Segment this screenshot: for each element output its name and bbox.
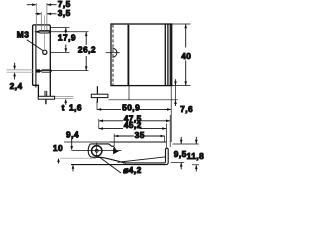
- inner fold line: [118, 157, 166, 162]
- hole centerline horizontal (to pin): [72, 150, 122, 152]
- tab top edge: [90, 144, 115, 150]
- tab left rounded end: [88, 144, 101, 157]
- foot pad: [38, 96, 54, 99]
- step notch lower-left: [33, 85, 39, 96]
- pin2 lens: [39, 70, 51, 72]
- bar bottom inner line + hairpin inner: [71, 148, 168, 164]
- dim 50,9: [96, 101, 98, 110]
- svg-text:9,5: 9,5: [174, 149, 187, 159]
- ext 7.5 left: [35, 3, 37, 31]
- up arrow at lip line: [72, 165, 75, 172]
- svg-text:45,2: 45,2: [124, 120, 142, 130]
- hole crosshair vertical: [96, 143, 98, 158]
- heatsink bracket technical drawing: [0, 0, 206, 185]
- hole center dot: [95, 149, 98, 152]
- M3 hole circle: [43, 50, 47, 54]
- dim 35: [113, 134, 115, 146]
- dim 47,5: [98, 119, 100, 129]
- tab bottom swoosh: [101, 157, 126, 163]
- ext pin2 centerline right: [42, 70, 89, 72]
- ext pin2 edges left (gray): [7, 69, 34, 71]
- body outline: [111, 24, 172, 86]
- ext top right: [173, 143, 199, 145]
- solder pin below pad: [45, 99, 47, 104]
- ext circle center vertical: [44, 16, 46, 51]
- pin seen from below (filled): [113, 148, 119, 154]
- dim phi 4,2 leader: [98, 156, 121, 173]
- svg-text:9,4: 9,4: [66, 129, 79, 139]
- svg-text:26,2: 26,2: [78, 45, 96, 55]
- svg-text:2,4: 2,4: [10, 81, 23, 91]
- pin1 cross-section lens: [36, 30, 49, 33]
- svg-text:17,9: 17,9: [58, 32, 76, 42]
- hidden inner line (dashed): [112, 25, 114, 86]
- svg-text:3,5: 3,5: [58, 8, 71, 18]
- mounting hole: [92, 146, 102, 156]
- svg-text:M3: M3: [17, 30, 30, 40]
- svg-text:10: 10: [53, 143, 63, 153]
- bar top edge + left ext: [64, 141, 110, 143]
- ext circle center right: [50, 52, 69, 54]
- svg-text:1,6: 1,6: [69, 103, 82, 113]
- svg-text:11,8: 11,8: [187, 151, 205, 161]
- inner left line: [35, 25, 37, 88]
- ext tab bottom left (gray): [60, 157, 96, 159]
- M3 leader line: [27, 40, 43, 51]
- svg-text:40: 40: [181, 51, 191, 61]
- svg-text:⌀4,2: ⌀4,2: [123, 165, 142, 175]
- dim 40: [172, 23, 191, 25]
- foot pin upper: [96, 86, 98, 94]
- svg-text:50,9: 50,9: [122, 102, 140, 112]
- dim 3,5: [35, 13, 56, 16]
- dim 45,2: [166, 124, 168, 148]
- solder pin above pad: [44, 91, 46, 97]
- dim 9,4: [70, 139, 73, 150]
- ext from thick line down: [128, 86, 130, 100]
- svg-text:t: t: [62, 103, 65, 113]
- fins right: [164, 24, 166, 85]
- side plate outline: [33, 25, 51, 96]
- svg-text:35: 35: [135, 130, 145, 140]
- svg-text:7,6: 7,6: [180, 104, 193, 114]
- M3 boss bump on left edge: [112, 48, 117, 57]
- ext pin1 centerline right: [35, 31, 89, 33]
- ext 11,8 bottom: [192, 164, 199, 166]
- ext from front right edge down: [170, 86, 172, 142]
- foot pin lower: [96, 98, 98, 103]
- ext pad faces right (gray): [55, 96, 73, 98]
- ext pad plane right: [109, 99, 178, 101]
- ext 9,5 bottom: [171, 161, 185, 163]
- ext top edge right: [50, 27, 69, 29]
- boss centerline tick: [106, 52, 120, 54]
- ext 3.5 left: [40, 12, 42, 30]
- foot pad front: [91, 94, 108, 97]
- dim 7,5: [27, 3, 57, 6]
- ext right shared: [46, 3, 48, 30]
- pin2 filled block: [36, 69, 40, 72]
- thick bend line: [127, 25, 129, 86]
